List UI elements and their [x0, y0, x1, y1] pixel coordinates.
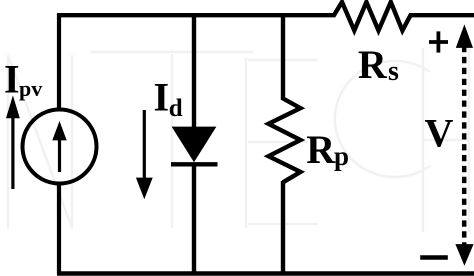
wire: diode branch upper segment	[192, 13, 196, 130]
Id label	[154, 75, 183, 123]
wire: left branch upper segment	[57, 13, 61, 110]
Ipv label	[4, 57, 42, 102]
svg-text:p: p	[334, 141, 349, 171]
resistor Rs label	[358, 42, 399, 87]
svg-text:I: I	[154, 75, 170, 120]
wire: diode branch lower segment	[192, 164, 196, 274]
watermark	[8, 48, 469, 232]
Id direction arrow	[136, 110, 153, 199]
voltage arrow bottom head	[455, 244, 473, 266]
current source Ipv circle	[23, 110, 97, 184]
wire: left branch lower segment	[57, 183, 61, 274]
voltage arrow dashed line	[462, 46, 467, 245]
minus terminal	[420, 255, 448, 259]
wire: top rail with series resistor Rs zigzag	[57, 2, 474, 31]
svg-text:pv: pv	[19, 76, 42, 101]
diode D1 cathode bar	[171, 162, 218, 166]
voltage arrow top head	[456, 24, 473, 48]
svg-text:R: R	[358, 42, 388, 87]
svg-text:V: V	[425, 111, 454, 156]
svg-text:R: R	[306, 127, 336, 172]
wire: Rp branch upper segment	[281, 13, 285, 100]
svg-text:d: d	[169, 95, 183, 122]
resistor Rp zigzag	[269, 99, 301, 183]
wire: bottom rail	[57, 271, 474, 276]
diode D1 triangle	[172, 127, 217, 163]
Ipv direction arrow	[6, 95, 20, 189]
svg-text:s: s	[388, 56, 399, 87]
current source internal arrow	[52, 121, 66, 172]
plus terminal	[429, 31, 448, 52]
Rp label	[306, 127, 349, 172]
wire: Rp branch lower segment	[281, 181, 285, 274]
svg-text:I: I	[4, 57, 20, 102]
